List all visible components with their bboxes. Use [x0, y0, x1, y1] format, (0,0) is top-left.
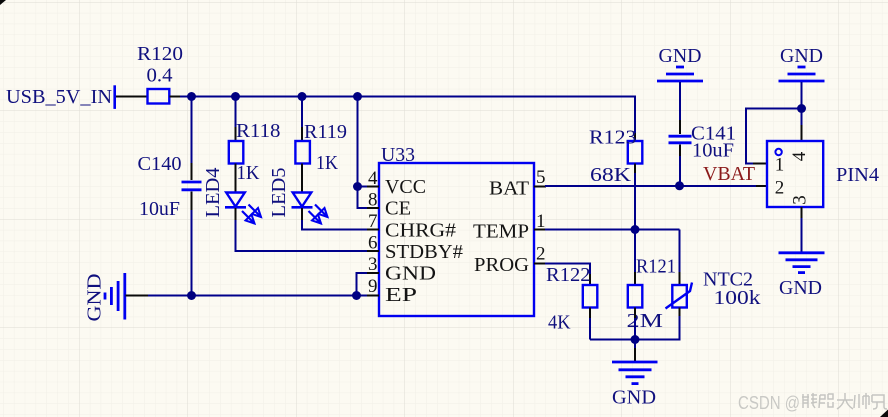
wire: TEMP corner down to NTC2	[679, 230, 681, 286]
svg-text:0.4: 0.4	[147, 66, 173, 87]
wire: VBAT rail into PIN4 pin2	[756, 185, 767, 187]
svg-text:GND: GND	[612, 388, 656, 409]
wire: LED5 to CHRG#	[302, 208, 368, 230]
wire: C140 to ground rail	[191, 192, 193, 296]
svg-text:9: 9	[368, 276, 378, 297]
wire: R119 branch	[301, 97, 303, 142]
wire: R118 to LED4	[235, 164, 237, 193]
port USB_5V_IN	[6, 85, 115, 109]
junction: bottom rail	[631, 335, 640, 344]
junction: top rail at C140	[187, 92, 196, 101]
LED LED5	[292, 193, 328, 224]
svg-text:USB_5V_IN: USB_5V_IN	[6, 87, 112, 108]
pin 6 stub STDBY#	[367, 250, 379, 252]
connector PIN4	[767, 141, 823, 207]
pin 8 stub CE	[367, 207, 379, 209]
ground symbol above C141	[657, 67, 703, 81]
svg-text:2M: 2M	[627, 311, 664, 332]
svg-text:5: 5	[536, 167, 546, 188]
pin 9 stub EP	[367, 295, 379, 297]
ground symbol left	[105, 273, 125, 320]
wire: ground to PIN4 pin4	[801, 82, 803, 141]
svg-text:10uF: 10uF	[692, 141, 734, 162]
svg-text:4K: 4K	[548, 313, 571, 334]
svg-text:10uF: 10uF	[139, 199, 180, 220]
wire: PIN4 pin3 to ground	[801, 207, 803, 252]
pin 7 stub CHRG#	[367, 229, 379, 231]
thermistor NTC2	[666, 283, 693, 309]
junction: ground rail at GND pin branch	[352, 291, 361, 300]
svg-text:GND: GND	[385, 264, 436, 285]
junction: VCC branch	[353, 182, 362, 191]
watermark	[738, 393, 887, 413]
wire: port to R120 pin	[116, 96, 147, 98]
pin 1 stub TEMP	[534, 229, 546, 231]
pin 5 stub BAT	[534, 186, 546, 188]
svg-text:1K: 1K	[316, 153, 338, 174]
corner mark top-left	[0, 0, 6, 5]
svg-text:4: 4	[789, 151, 810, 161]
svg-text:R120: R120	[137, 44, 183, 65]
junction: ground rail at C140	[187, 291, 196, 300]
IC U33	[379, 163, 534, 316]
resistor R121	[628, 285, 643, 308]
wire: top rail USB_5V net	[180, 96, 636, 98]
svg-text:R119: R119	[304, 122, 347, 143]
svg-text:8: 8	[368, 190, 378, 211]
svg-text:VBAT: VBAT	[703, 164, 755, 185]
wire: LED4 to STDBY#	[236, 208, 369, 251]
wire: C140 branch down	[191, 97, 193, 181]
svg-text:CE: CE	[385, 199, 411, 220]
svg-text:6: 6	[368, 233, 378, 254]
svg-text:TEMP: TEMP	[473, 222, 529, 243]
pin 2 stub PROG	[534, 263, 546, 265]
resistor R120	[148, 89, 182, 104]
junction: TEMP at R121	[631, 225, 640, 234]
wire: GND loop to PIN4 pin1	[746, 109, 802, 164]
wire: PROG to R122	[545, 264, 590, 286]
wire: bottom rail to ground	[634, 340, 636, 362]
svg-text:R121: R121	[636, 257, 676, 278]
wire: R122 to bottom rail	[589, 308, 591, 340]
svg-text:1: 1	[536, 211, 546, 232]
svg-text:4: 4	[368, 168, 378, 189]
svg-text:R123: R123	[589, 128, 637, 149]
svg-text:3: 3	[790, 195, 811, 205]
svg-text:C140: C140	[138, 154, 182, 175]
pin 4 stub VCC	[367, 186, 379, 188]
wire: C141 to VBAT rail	[679, 145, 681, 187]
wire: NTC2 to bottom rail	[590, 308, 680, 340]
svg-text:LED4: LED4	[203, 167, 224, 217]
wire: R121 to bottom rail	[634, 308, 636, 340]
junction: top rail at R119	[298, 92, 307, 101]
resistor R119	[295, 141, 310, 164]
wire: R119 to LED5	[301, 164, 303, 193]
svg-text:EP: EP	[385, 285, 417, 306]
svg-text:2: 2	[775, 178, 785, 199]
LED LED4	[225, 193, 261, 224]
svg-text:GND: GND	[659, 46, 702, 67]
wire: top rail corner down to R123	[634, 97, 636, 142]
ground symbol bottom center	[612, 362, 658, 384]
wire: R123 down across VBAT to TEMP rail	[634, 164, 636, 230]
pin 3 stub GND	[367, 272, 379, 274]
svg-text:68K: 68K	[590, 165, 631, 186]
svg-text:CHRG#: CHRG#	[385, 221, 456, 242]
svg-text:STDBY#: STDBY#	[385, 242, 463, 263]
svg-text:PIN4: PIN4	[836, 165, 879, 186]
svg-text:VCC: VCC	[385, 177, 426, 198]
resistor R123	[628, 141, 643, 164]
svg-text:1K: 1K	[237, 163, 260, 184]
svg-text:R118: R118	[236, 121, 281, 142]
svg-text:LED5: LED5	[269, 168, 290, 218]
svg-text:100k: 100k	[714, 288, 761, 309]
svg-text:1: 1	[775, 155, 785, 176]
svg-text:CSDN @: CSDN @	[738, 393, 800, 413]
junction: VBAT at C141	[675, 181, 684, 190]
wire: ground to C141	[679, 82, 681, 134]
wire: R121 branch down	[634, 230, 636, 273]
wire: TEMP rail	[545, 229, 680, 231]
svg-text:PROG: PROG	[474, 255, 529, 276]
svg-text:BAT: BAT	[489, 179, 529, 200]
svg-text:2: 2	[536, 244, 546, 265]
svg-text:U33: U33	[381, 145, 415, 166]
svg-text:GND: GND	[779, 278, 822, 299]
junction: GND at PIN4	[797, 104, 806, 113]
corner mark bottom-right	[880, 410, 888, 417]
resistor R122	[583, 285, 598, 308]
svg-text:3: 3	[368, 254, 378, 275]
junction: top rail at R118	[231, 92, 240, 101]
svg-text:GND: GND	[85, 274, 106, 322]
ground symbol above PIN4	[779, 67, 825, 81]
ground symbol below PIN4	[779, 253, 825, 273]
wire: VCC/CE branch	[358, 97, 369, 209]
capacitor C141	[669, 136, 692, 143]
wire: R118 branch	[235, 97, 237, 142]
junction: top rail at VCC branch	[353, 92, 362, 101]
svg-text:R122: R122	[546, 265, 591, 286]
svg-text:7: 7	[368, 211, 378, 232]
wire: branch to GND pin 3	[357, 273, 369, 296]
wire: BAT to VBAT rail	[545, 185, 756, 187]
svg-text:GND: GND	[780, 46, 823, 67]
wire: ground rail to EP	[126, 295, 369, 297]
resistor R118	[229, 141, 244, 164]
capacitor C140	[182, 182, 202, 190]
